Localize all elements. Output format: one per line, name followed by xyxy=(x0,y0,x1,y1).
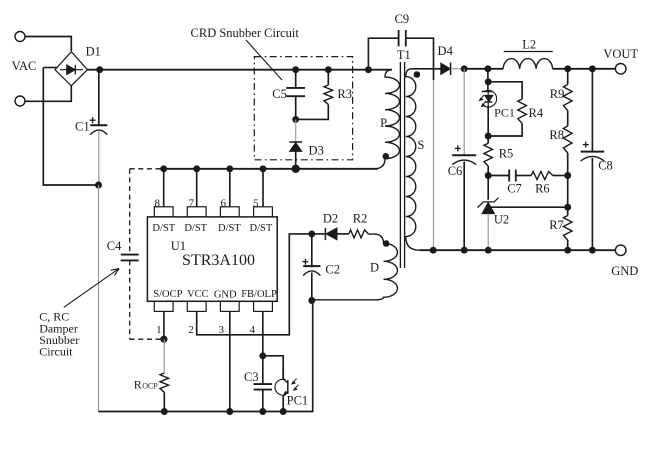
T1 auxiliary winding D xyxy=(312,234,397,300)
wire R6 to divider xyxy=(553,175,568,177)
label CRD Snubber Circuit xyxy=(191,26,300,40)
node PC1 LED top xyxy=(485,78,492,85)
wire C9 right upper xyxy=(406,38,434,80)
wire bottom node drop xyxy=(98,185,100,412)
U1 bottom pin box 4 xyxy=(254,301,273,311)
label U2 xyxy=(494,212,509,226)
label R9 xyxy=(550,87,565,101)
label C7 xyxy=(507,181,522,195)
IC U1 body xyxy=(147,217,277,301)
wire D2 to R2 xyxy=(337,233,349,235)
wire VAC return stub xyxy=(43,67,56,69)
svg-text:VOUT: VOUT xyxy=(603,47,638,61)
wire C6 drop xyxy=(463,69,465,155)
T1 core xyxy=(400,62,404,268)
wire rail to C5 xyxy=(295,70,297,88)
wire S top to D4 anode xyxy=(411,68,441,70)
wire main HV rail xyxy=(88,69,393,71)
svg-text:T1: T1 xyxy=(397,48,411,62)
svg-text:8: 8 xyxy=(154,198,160,210)
svg-text:D/ST: D/ST xyxy=(152,223,175,234)
svg-text:R5: R5 xyxy=(499,147,514,161)
svg-text:R: R xyxy=(134,377,142,391)
label P winding xyxy=(380,116,387,130)
node C9 primary rail xyxy=(365,66,372,73)
label C9 xyxy=(395,12,410,26)
node C6 top xyxy=(461,65,468,72)
svg-text:GND: GND xyxy=(214,290,237,301)
label C1 xyxy=(75,120,90,134)
wire rail to R3 xyxy=(327,70,329,85)
label D2 xyxy=(323,212,338,226)
wire pin 8 to drain rail xyxy=(163,169,165,207)
wire pin3 down xyxy=(229,311,231,411)
svg-text:D1: D1 xyxy=(86,45,101,59)
svg-text:P: P xyxy=(380,116,387,130)
label C2 xyxy=(325,262,340,276)
svg-text:VAC: VAC xyxy=(12,59,37,73)
wire pin 7 to drain rail xyxy=(196,169,198,207)
U1 pin numbers bottom xyxy=(156,324,255,336)
resistor R8 xyxy=(563,126,572,153)
svg-text:1: 1 xyxy=(156,324,162,336)
wire pin1 to Rocp xyxy=(163,339,165,373)
wire R3 to node xyxy=(296,105,329,120)
wire drain rail dashed segment xyxy=(130,168,164,170)
resistor R4 xyxy=(518,99,527,123)
svg-text:7: 7 xyxy=(188,198,194,210)
node C1 bottom xyxy=(95,182,102,189)
node R3 top xyxy=(325,66,332,73)
node C5 top xyxy=(292,66,299,73)
wire pin1 down xyxy=(163,311,165,339)
wire C5 to node xyxy=(295,96,297,119)
U1 top pin box 7 xyxy=(187,207,206,217)
T1 P phase dot xyxy=(383,153,390,160)
node R5 bottom xyxy=(485,172,492,179)
label C6 xyxy=(448,164,463,178)
svg-text:PC1: PC1 xyxy=(287,394,309,408)
terminal GND xyxy=(615,245,626,256)
node VCC C2 junction xyxy=(308,230,315,237)
wire top terminal to bridge xyxy=(25,37,71,52)
node C2 bottom xyxy=(308,297,315,304)
wire node to D3 xyxy=(295,119,297,142)
svg-text:U1: U1 xyxy=(171,239,186,253)
svg-text:C6: C6 xyxy=(448,164,463,178)
svg-text:L2: L2 xyxy=(522,37,536,51)
svg-text:R8: R8 xyxy=(549,128,564,142)
node C6 ground xyxy=(461,247,468,254)
label PC1 transistor xyxy=(287,394,309,408)
U1 top pin box 6 xyxy=(220,207,239,217)
label R5 xyxy=(499,147,514,161)
wire C1 to bottom node xyxy=(98,132,100,186)
U1 bottom pin box 3 xyxy=(220,301,239,311)
label GND xyxy=(611,264,638,278)
svg-text:C3: C3 xyxy=(244,370,259,384)
wire rail to PC1 LED xyxy=(487,69,489,92)
node U2 ground xyxy=(485,247,492,254)
svg-text:D: D xyxy=(370,260,379,274)
svg-text:C1: C1 xyxy=(75,120,90,134)
svg-text:D/ST: D/ST xyxy=(184,223,207,234)
label D winding xyxy=(370,260,379,274)
resistor ROCP xyxy=(160,373,169,392)
resistor R2 xyxy=(349,230,369,238)
label R4 xyxy=(529,106,544,120)
label D1 xyxy=(86,45,101,59)
wire R4 branch xyxy=(488,82,522,99)
label C3 xyxy=(244,370,259,384)
T1 primary winding P xyxy=(374,70,400,169)
wire bottom terminal to bridge xyxy=(25,86,71,102)
svg-text:S: S xyxy=(417,138,424,152)
wire R5 to node xyxy=(487,166,489,176)
wire secondary ground rail xyxy=(419,249,615,251)
svg-text:5: 5 xyxy=(253,198,259,210)
svg-text:R9: R9 xyxy=(550,87,565,101)
label U1 xyxy=(171,239,186,253)
U1 top pin box 8 xyxy=(154,207,173,217)
U1 D/ST labels xyxy=(152,223,272,234)
wire Rocp to ground rail xyxy=(163,392,165,411)
diode D4 xyxy=(441,63,451,75)
dashed damper path upper xyxy=(129,169,131,254)
node PC1 branch top xyxy=(484,65,491,72)
node pin7 rail xyxy=(193,165,200,172)
capacitor C3 xyxy=(254,384,272,390)
node C3 ground xyxy=(259,408,266,415)
annotation arrow to C4 xyxy=(64,269,119,308)
svg-text:6: 6 xyxy=(221,198,227,210)
node pin5 rail xyxy=(260,165,267,172)
svg-text:FB/OLP: FB/OLP xyxy=(241,289,277,300)
wire C9 right drop xyxy=(433,80,435,250)
wire U2 ref line xyxy=(488,206,568,208)
T1 D phase dot xyxy=(383,240,390,247)
capacitor C9 xyxy=(399,30,406,46)
label C4 xyxy=(107,239,122,253)
capacitor C2 xyxy=(302,234,320,276)
resistor R7 xyxy=(563,216,572,241)
U1 bottom pin box 1 xyxy=(154,301,173,311)
label S winding xyxy=(417,138,424,152)
svg-text:R6: R6 xyxy=(535,181,550,195)
label R2 xyxy=(353,212,368,226)
wire U2 to ground xyxy=(487,214,489,251)
wire node to C7 xyxy=(488,175,509,177)
bridge rectifier D1 xyxy=(55,52,88,86)
capacitor C5 xyxy=(286,88,305,96)
svg-text:D3: D3 xyxy=(309,144,324,158)
capacitor C6 xyxy=(452,145,476,164)
wire C3 to ground rail xyxy=(262,390,264,412)
wire pin 5 to drain rail xyxy=(262,169,264,207)
svg-text:CRD Snubber Circuit: CRD Snubber Circuit xyxy=(191,26,300,40)
label D4 xyxy=(438,44,454,58)
label T1 xyxy=(397,48,411,62)
label C8 xyxy=(598,159,613,173)
svg-text:D4: D4 xyxy=(438,44,454,58)
wire C2 bottom xyxy=(311,272,313,300)
wire node to R7 xyxy=(567,207,569,215)
wire D4 to node xyxy=(451,68,465,70)
label R8 xyxy=(549,128,564,142)
U1 bottom pin labels xyxy=(153,289,277,301)
node C8 ground xyxy=(589,247,596,254)
wire secondary rail right xyxy=(553,68,616,70)
svg-text:C4: C4 xyxy=(107,239,122,253)
wire R4 to node xyxy=(488,123,522,136)
label C RC Damper Snubber Circuit xyxy=(39,310,79,359)
wire R8 to node xyxy=(567,153,569,207)
wire pin 6 to drain rail xyxy=(229,169,231,207)
node pin4 C3 junction xyxy=(259,352,266,359)
wire R9 to R8 xyxy=(567,111,569,127)
wire secondary rail left xyxy=(464,68,503,70)
label R3 xyxy=(337,87,352,101)
inductor L2 xyxy=(503,52,553,69)
label D3 xyxy=(309,144,324,158)
wire C9 left xyxy=(368,38,398,69)
pointer line to snubber xyxy=(246,40,282,80)
dashed damper path bottom xyxy=(130,338,164,340)
wire R5 node to U2 xyxy=(487,176,489,200)
label L2 xyxy=(522,37,536,51)
node R4 bottom junction xyxy=(485,133,492,140)
wire primary ground rail xyxy=(99,301,313,412)
wire PC1 LED bottom xyxy=(487,106,489,136)
svg-text:R3: R3 xyxy=(337,87,352,101)
label PC1 LED xyxy=(494,105,515,119)
svg-text:Circuit: Circuit xyxy=(39,344,73,358)
svg-text:U2: U2 xyxy=(494,212,509,226)
resistor R5 xyxy=(484,143,493,166)
optocoupler PC1 phototransistor xyxy=(275,368,298,412)
svg-text:C7: C7 xyxy=(507,181,522,195)
resistor R6 xyxy=(531,172,553,180)
label STR3A100 xyxy=(182,252,255,269)
svg-text:D2: D2 xyxy=(323,212,338,226)
resistor R9 xyxy=(563,85,572,111)
wire R7 to ground xyxy=(567,240,569,250)
terminal VAC top xyxy=(15,32,25,42)
capacitor C8 xyxy=(581,142,605,161)
node U2 ref xyxy=(564,204,571,211)
label VOUT xyxy=(603,47,638,61)
label ROCP xyxy=(134,377,159,391)
node D3 rail xyxy=(292,165,300,173)
node C8 top xyxy=(589,65,596,72)
node Rocp ground xyxy=(161,408,168,415)
node PC1 emitter ground xyxy=(280,408,287,415)
wire C6 bottom xyxy=(463,162,465,251)
U1 top pin box 5 xyxy=(254,207,273,217)
diode D3 xyxy=(289,142,302,151)
terminal VOUT xyxy=(615,64,626,75)
wire FB to PC1 collector xyxy=(263,356,283,379)
svg-text:D/ST: D/ST xyxy=(218,223,241,234)
diode D2 xyxy=(325,228,337,240)
node R7 ground xyxy=(564,247,571,254)
svg-text:C5: C5 xyxy=(272,87,287,101)
wire D3 to drain rail xyxy=(295,151,297,168)
dashed damper path lower xyxy=(129,260,131,339)
capacitor C4 xyxy=(121,255,139,261)
svg-text:R2: R2 xyxy=(353,212,368,226)
node pin8 rail xyxy=(160,165,167,172)
svg-text:STR3A100: STR3A100 xyxy=(182,252,255,269)
shunt regulator U2 xyxy=(478,198,499,214)
node pin6 rail xyxy=(226,165,233,172)
label C5 xyxy=(272,87,287,101)
node rectifier output xyxy=(96,66,103,73)
wire rail to R9 xyxy=(567,69,569,85)
svg-text:2: 2 xyxy=(188,324,194,336)
svg-text:R4: R4 xyxy=(529,106,544,120)
capacitor C7 xyxy=(509,170,516,182)
wire node to D2 xyxy=(312,233,326,235)
T1 secondary winding S xyxy=(406,69,420,250)
node C5-R3 junction xyxy=(292,116,299,123)
wire pin4 down xyxy=(262,311,264,384)
wire C8 drop xyxy=(591,69,593,152)
label VAC xyxy=(12,59,37,73)
node divider mid xyxy=(564,172,571,179)
svg-text:C9: C9 xyxy=(395,12,410,26)
svg-text:VCC: VCC xyxy=(187,289,209,300)
U1 pin numbers top xyxy=(154,198,259,210)
wire drain rail xyxy=(164,168,378,170)
wire pin2 VCC route xyxy=(197,234,312,335)
wire node to R5 xyxy=(487,136,489,143)
svg-text:C8: C8 xyxy=(598,159,613,173)
svg-text:OCP: OCP xyxy=(142,381,158,390)
CRD snubber dashed box xyxy=(254,57,352,160)
svg-text:S/OCP: S/OCP xyxy=(153,289,182,300)
wire C7 to R6 xyxy=(516,175,531,177)
label R7 xyxy=(549,218,564,232)
node C9 secondary ground xyxy=(430,247,437,254)
capacitor C1 xyxy=(90,117,108,134)
svg-text:C2: C2 xyxy=(325,262,340,276)
node pin1 damper xyxy=(160,336,167,343)
resistor R3 xyxy=(324,85,333,105)
svg-text:PC1: PC1 xyxy=(494,105,515,119)
node R9 top xyxy=(564,65,571,72)
T1 S phase dot xyxy=(414,71,421,78)
U1 bottom pin box 2 xyxy=(187,301,206,311)
wire C8 bottom xyxy=(591,158,593,250)
svg-text:GND: GND xyxy=(611,264,638,278)
wire rail to C1 xyxy=(98,70,100,126)
label R6 xyxy=(535,181,550,195)
wire VAC return down xyxy=(43,68,98,186)
svg-text:D/ST: D/ST xyxy=(250,223,273,234)
terminal VAC bottom xyxy=(15,96,25,106)
svg-text:R7: R7 xyxy=(549,218,564,232)
optocoupler PC1 LED xyxy=(479,90,496,107)
node pin3 ground xyxy=(226,408,233,415)
